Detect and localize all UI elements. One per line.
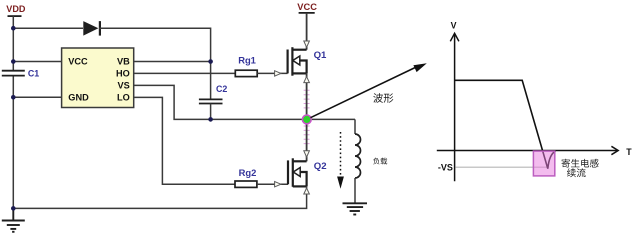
svg-text:VCC: VCC xyxy=(68,57,88,67)
svg-text:VDD: VDD xyxy=(6,4,26,14)
capacitor C2 bootstrap xyxy=(199,99,223,119)
label 寄生电感 parasitic inductance xyxy=(562,159,599,168)
diode D1 bootstrap xyxy=(83,21,100,35)
node VDD branch xyxy=(11,26,16,31)
inductor load L1 xyxy=(355,134,361,178)
-VS level line xyxy=(455,166,547,168)
wire GND pin to left rail xyxy=(13,96,61,98)
svg-text:Rg1: Rg1 xyxy=(238,54,256,65)
drain direction arrow Q1 xyxy=(304,41,310,47)
wire load to ground xyxy=(354,178,356,203)
power rail VCC top xyxy=(297,2,317,13)
wire Rg2 to Q2 gate xyxy=(257,183,288,185)
current direction dashed arrow xyxy=(337,132,344,189)
power rail VDD xyxy=(6,4,26,28)
svg-text:Q1: Q1 xyxy=(314,50,327,61)
transistor Q1 N-MOSFET xyxy=(288,47,307,75)
highlight box parasitic region (border) xyxy=(533,151,554,176)
svg-text:VB: VB xyxy=(117,57,130,67)
wire diode anode (VDD branch) xyxy=(13,27,83,29)
wire left rail lower (C1 to bottom rail) xyxy=(12,76,14,209)
svg-text:VCC: VCC xyxy=(297,2,317,12)
wire HO pin to Rg1 xyxy=(134,72,236,74)
wire Rg1 to Q1 gate xyxy=(257,72,287,74)
svg-text:V: V xyxy=(451,21,457,31)
ground left xyxy=(2,208,25,231)
node VS/C2 xyxy=(208,117,213,122)
wire left rail upper (VDD to C1) xyxy=(12,28,14,70)
svg-text:LO: LO xyxy=(117,93,130,103)
node VB/C2 xyxy=(208,59,213,64)
ground right xyxy=(343,203,368,214)
gate direction arrow Q2 xyxy=(275,182,281,187)
label 续流 freewheeling xyxy=(567,168,586,177)
transistor Q2 N-MOSFET xyxy=(288,158,307,187)
wire VS pin to switch node xyxy=(134,85,355,119)
waveform trace xyxy=(455,80,556,168)
wire switch node to Q2 drain xyxy=(304,126,310,146)
svg-text:C1: C1 xyxy=(28,68,39,78)
op-amp U1 gate-driver IC xyxy=(62,48,134,108)
wire VCC to Q1 drain xyxy=(306,13,308,50)
wire Q1 source to switch node xyxy=(304,90,310,111)
wire diode cathode to VB rail corner xyxy=(99,28,211,99)
highlight box parasitic region (translucent fill) xyxy=(533,151,554,176)
wire Q2 source to bottom rail xyxy=(13,186,306,208)
capacitor C1 xyxy=(2,71,25,76)
source direction arrow Q1 xyxy=(304,77,310,83)
annotation arrow to waveform xyxy=(311,63,427,117)
wire VB pin to bootstrap node xyxy=(134,61,211,63)
source direction arrow Q2 xyxy=(304,188,310,194)
svg-text:-VS: -VS xyxy=(438,163,453,173)
resistor Rg2 xyxy=(235,181,257,187)
waveform graph V axis xyxy=(450,33,459,181)
svg-text:GND: GND xyxy=(68,93,89,103)
node bottom-left xyxy=(11,206,16,211)
label 波形 waveform xyxy=(373,93,393,103)
svg-text:VS: VS xyxy=(118,81,130,91)
svg-text:HO: HO xyxy=(116,69,130,79)
svg-text:T: T xyxy=(626,147,632,157)
svg-text:Rg2: Rg2 xyxy=(239,167,257,178)
node VS switch (green) xyxy=(302,115,311,124)
node VCC/C1 xyxy=(11,59,16,64)
waveform graph T axis xyxy=(437,146,618,154)
wire VCC pin to left rail xyxy=(13,61,61,63)
svg-text:C2: C2 xyxy=(216,84,227,94)
gate direction arrow Q1 xyxy=(275,71,281,76)
node GND/C1 xyxy=(11,95,16,100)
svg-text:Q2: Q2 xyxy=(314,161,327,172)
resistor Rg1 xyxy=(235,70,257,76)
drain direction arrow Q2 xyxy=(304,151,310,157)
wire LO pin to Rg2 xyxy=(134,97,235,184)
wire switch node to load xyxy=(354,119,356,134)
label 负载 load xyxy=(373,158,387,165)
